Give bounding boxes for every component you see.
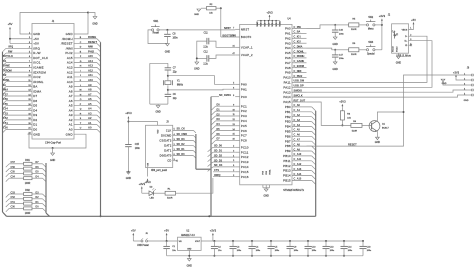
svg-text:PC16: PC16 xyxy=(241,175,249,179)
svg-text:C_A7: C_A7 xyxy=(294,139,301,142)
svg-text:PC5: PC5 xyxy=(241,124,247,128)
svg-text:+3V3: +3V3 xyxy=(144,180,151,184)
svg-text:C64-Cap-Port: C64-Cap-Port xyxy=(45,140,61,144)
svg-text:PB7: PB7 xyxy=(285,139,291,143)
svg-text:C50: C50 xyxy=(11,206,16,209)
svg-text:100n: 100n xyxy=(348,250,353,252)
svg-text:C4: C4 xyxy=(256,246,260,248)
svg-text:510R: 510R xyxy=(352,130,358,132)
svg-text:C54: C54 xyxy=(11,176,16,179)
svg-text:A2: A2 xyxy=(88,116,92,120)
svg-text:C_IO1: C_IO1 xyxy=(294,36,302,39)
svg-text:100R: 100R xyxy=(25,213,31,215)
svg-text:PC0: PC0 xyxy=(241,95,247,99)
svg-text:100n: 100n xyxy=(339,33,345,35)
svg-text:VDD: VDD xyxy=(261,22,263,27)
svg-text:ROML: ROML xyxy=(2,78,10,82)
svg-text:GAME: GAME xyxy=(2,64,10,68)
svg-text:R1: R1 xyxy=(168,189,172,191)
svg-text:C_ROMH: C_ROMH xyxy=(294,55,305,58)
svg-text:BC817: BC817 xyxy=(382,128,389,130)
svg-text:+5V: +5V xyxy=(8,22,13,26)
svg-text:100n: 100n xyxy=(367,250,372,252)
svg-text:IRQ: IRQ xyxy=(9,45,14,49)
svg-text:PB14: PB14 xyxy=(283,174,291,178)
svg-text:D0: D0 xyxy=(33,128,37,132)
svg-text:PA5: PA5 xyxy=(285,51,291,55)
svg-text:C14: C14 xyxy=(348,246,353,248)
svg-text:C51: C51 xyxy=(11,201,16,204)
svg-text:C_A11: C_A11 xyxy=(294,158,302,161)
svg-text:A7: A7 xyxy=(88,92,92,96)
svg-text:PB9: PB9 xyxy=(285,149,291,153)
svg-text:VBAT: VBAT xyxy=(256,21,259,27)
svg-text:PC15: PC15 xyxy=(241,170,249,174)
svg-text:A15: A15 xyxy=(67,56,73,60)
svg-text:PC12: PC12 xyxy=(241,155,249,159)
svg-text:VDD: VDD xyxy=(265,22,267,27)
svg-text:C2: C2 xyxy=(218,246,222,248)
svg-text:GND: GND xyxy=(33,32,40,36)
svg-text:GND: GND xyxy=(194,14,199,16)
svg-text:CLK: CLK xyxy=(166,128,172,132)
svg-text:GND: GND xyxy=(155,111,161,114)
svg-text:C52: C52 xyxy=(11,196,16,199)
svg-text:R3: R3 xyxy=(347,113,351,115)
svg-text:C8: C8 xyxy=(173,34,177,36)
svg-text:PB11: PB11 xyxy=(283,159,291,163)
svg-text:D0/DAT0: D0/DAT0 xyxy=(160,154,172,158)
svg-text:SW1: SW1 xyxy=(153,20,159,23)
svg-text:DOTCLK: DOTCLK xyxy=(2,54,13,58)
svg-text:C56: C56 xyxy=(11,166,16,169)
svg-text:/I/O2: /I/O2 xyxy=(33,75,41,79)
svg-text:ROMH: ROMH xyxy=(88,35,96,39)
svg-text:A13: A13 xyxy=(88,64,93,68)
svg-text:100n: 100n xyxy=(173,38,179,40)
svg-text:PB12: PB12 xyxy=(283,164,291,168)
svg-text:100n: 100n xyxy=(256,250,261,252)
svg-text:/EXROM: /EXROM xyxy=(33,70,46,74)
svg-text:A12: A12 xyxy=(88,68,93,72)
svg-text:A1: A1 xyxy=(69,123,73,127)
svg-text:U4: U4 xyxy=(287,17,291,20)
svg-text:A9: A9 xyxy=(69,85,73,89)
svg-text:+3V3: +3V3 xyxy=(266,10,273,14)
svg-text:Q1: Q1 xyxy=(382,123,386,125)
svg-text:PA11: PA11 xyxy=(284,81,291,85)
svg-text:PH0: PH0 xyxy=(241,82,247,86)
svg-text:100n: 100n xyxy=(135,148,141,150)
svg-text:SW3: SW3 xyxy=(368,42,374,44)
svg-text:C_A0: C_A0 xyxy=(294,104,301,107)
svg-text:10k: 10k xyxy=(347,117,351,119)
svg-text:C53: C53 xyxy=(11,191,16,194)
svg-text:+5V: +5V xyxy=(33,42,39,46)
svg-text:GND: GND xyxy=(333,68,339,71)
svg-text:PA14: PA14 xyxy=(283,95,291,99)
svg-text:SWCLK: SWCLK xyxy=(294,94,303,97)
svg-text:J2: J2 xyxy=(388,15,391,17)
svg-text:PB5: PB5 xyxy=(285,130,291,134)
svg-text:PC3: PC3 xyxy=(241,114,247,118)
svg-text:C18: C18 xyxy=(367,246,372,248)
svg-text:A0: A0 xyxy=(69,128,73,132)
svg-text:PHI2: PHI2 xyxy=(65,51,73,55)
svg-text:C_PHI2: C_PHI2 xyxy=(294,75,303,78)
svg-text:A7: A7 xyxy=(69,94,73,98)
svg-text:+3V3: +3V3 xyxy=(139,182,146,186)
svg-text:C_EXRM: C_EXRM xyxy=(294,65,304,68)
svg-text:/IRQ: /IRQ xyxy=(33,46,40,50)
svg-text:DOT_CLK: DOT_CLK xyxy=(33,56,48,60)
svg-text:C57: C57 xyxy=(3,92,8,96)
svg-text:PB13: PB13 xyxy=(283,169,291,173)
svg-text:Reset: Reset xyxy=(153,32,160,35)
svg-text:C57: C57 xyxy=(11,161,16,164)
svg-text:VCAP_2: VCAP_2 xyxy=(241,53,253,57)
svg-text:A3: A3 xyxy=(69,113,73,117)
svg-text:/ROMH: /ROMH xyxy=(62,37,73,41)
svg-text:510R: 510R xyxy=(351,54,357,56)
svg-text:2.2u: 2.2u xyxy=(203,46,208,48)
svg-text:PH1: PH1 xyxy=(241,87,247,91)
svg-text:C_A3: C_A3 xyxy=(294,119,301,122)
svg-text:PA1: PA1 xyxy=(285,32,291,36)
svg-text:C_A8: C_A8 xyxy=(294,143,301,146)
svg-text:GND: GND xyxy=(187,248,192,250)
svg-text:10k: 10k xyxy=(209,13,213,15)
svg-text:C_A10: C_A10 xyxy=(294,153,302,156)
svg-text:EXROM: EXROM xyxy=(2,68,12,72)
svg-text:C55: C55 xyxy=(11,171,16,174)
svg-text:510R: 510R xyxy=(167,198,173,200)
svg-text:+3V3: +3V3 xyxy=(453,70,460,74)
svg-text:GND: GND xyxy=(464,100,469,102)
svg-text:C_GAME: C_GAME xyxy=(294,60,305,63)
svg-text:RESET: RESET xyxy=(88,40,97,44)
svg-text:USB Power: USB Power xyxy=(137,244,149,247)
svg-text:A10: A10 xyxy=(88,78,93,82)
svg-text:D-: D- xyxy=(405,36,408,38)
svg-text:GND: GND xyxy=(396,62,402,65)
svg-text:A11: A11 xyxy=(88,73,93,77)
svg-text:A14: A14 xyxy=(67,61,73,65)
svg-text:C_BA: C_BA xyxy=(294,31,301,34)
svg-text:D2: D2 xyxy=(150,187,154,189)
svg-text:R6: R6 xyxy=(352,43,356,45)
svg-text:GND: GND xyxy=(187,265,193,268)
svg-text:J3: J3 xyxy=(166,122,169,124)
svg-text:PB1: PB1 xyxy=(285,110,291,114)
svg-text:A0: A0 xyxy=(88,126,92,130)
svg-text:PA0: PA0 xyxy=(285,27,291,31)
svg-text:GND: GND xyxy=(33,132,40,136)
svg-text:PHI2: PHI2 xyxy=(88,49,94,53)
svg-text:SWDIO: SWDIO xyxy=(294,90,303,93)
svg-text:SD_CMD1: SD_CMD1 xyxy=(219,94,232,97)
svg-text:NMI: NMI xyxy=(88,45,93,49)
svg-text:M: M xyxy=(80,90,82,92)
svg-text:R5: R5 xyxy=(352,18,356,20)
svg-text:A9: A9 xyxy=(88,83,92,87)
svg-text:GND: GND xyxy=(194,67,200,70)
svg-text:10u: 10u xyxy=(218,250,222,252)
svg-text:RW: RW xyxy=(8,49,13,53)
svg-text:C_A5: C_A5 xyxy=(294,129,301,132)
svg-text:Special: Special xyxy=(367,53,375,55)
svg-text:VDD: VDD xyxy=(268,22,270,27)
svg-text:C5: C5 xyxy=(275,246,279,248)
svg-text:C53: C53 xyxy=(3,111,8,115)
svg-text:A13: A13 xyxy=(67,65,73,69)
svg-text:8MHz: 8MHz xyxy=(177,85,184,87)
svg-text:A8: A8 xyxy=(69,89,73,93)
svg-text:BA: BA xyxy=(33,85,37,89)
svg-text:VDD: VDD xyxy=(276,22,278,27)
svg-text:C55: C55 xyxy=(3,102,8,106)
svg-text:CS/DAT3: CS/DAT3 xyxy=(159,139,172,143)
svg-text:RESET: RESET xyxy=(348,143,357,147)
svg-text:A6: A6 xyxy=(88,97,92,101)
svg-text:C_A4: C_A4 xyxy=(294,124,301,127)
svg-text:J: J xyxy=(80,75,81,77)
svg-text:C_A9: C_A9 xyxy=(294,148,301,151)
svg-text:PC6: PC6 xyxy=(241,129,247,133)
svg-text:D7: D7 xyxy=(33,94,37,98)
svg-text:BOOT0: BOOT0 xyxy=(241,35,252,39)
svg-text:PB8: PB8 xyxy=(285,144,291,148)
svg-text:GND: GND xyxy=(333,43,339,46)
svg-text:PC1: PC1 xyxy=(241,104,247,108)
svg-text:PC7: PC7 xyxy=(241,134,247,138)
svg-text:/ROML: /ROML xyxy=(33,80,44,84)
svg-text:DMA: DMA xyxy=(2,88,8,92)
svg-text:C_NMI: C_NMI xyxy=(294,70,302,73)
svg-text:GND: GND xyxy=(50,159,56,162)
svg-text:A4: A4 xyxy=(88,107,92,111)
svg-text:SD_D2: SD_D2 xyxy=(177,143,186,146)
svg-text:+5V: +5V xyxy=(33,37,39,41)
svg-text:C6: C6 xyxy=(173,94,177,96)
svg-text:A12: A12 xyxy=(67,70,73,74)
svg-text:C17: C17 xyxy=(339,54,344,56)
svg-text:D6: D6 xyxy=(33,99,37,103)
svg-text:510R: 510R xyxy=(351,29,357,31)
svg-text:D5: D5 xyxy=(33,104,37,108)
svg-text:/GAME: /GAME xyxy=(33,65,44,69)
svg-text:C7: C7 xyxy=(173,68,177,70)
svg-text:C13: C13 xyxy=(330,246,335,248)
svg-text:C3: C3 xyxy=(237,246,241,248)
svg-text:R2: R2 xyxy=(210,4,214,6)
svg-text:STM32F405RGTx: STM32F405RGTx xyxy=(283,188,305,192)
svg-text:+3V3: +3V3 xyxy=(210,229,217,233)
svg-text:SW2: SW2 xyxy=(368,17,374,19)
svg-text:GND: GND xyxy=(66,132,73,136)
svg-text:100n: 100n xyxy=(275,250,280,252)
svg-text:4Bit_port_push: 4Bit_port_push xyxy=(151,169,168,172)
svg-text:SD_D1: SD_D1 xyxy=(177,148,186,151)
svg-text:GND: GND xyxy=(442,83,447,85)
svg-text:PB3: PB3 xyxy=(285,120,291,124)
svg-text:LED: LED xyxy=(150,198,155,200)
svg-text:DAT1: DAT1 xyxy=(164,149,172,153)
svg-text:PA7: PA7 xyxy=(285,61,291,65)
svg-text:PB4: PB4 xyxy=(285,125,291,129)
svg-text:100n: 100n xyxy=(294,250,299,252)
svg-text:C10: C10 xyxy=(312,246,317,248)
svg-text:R-/W: R-/W xyxy=(33,51,41,55)
svg-text:SD_D3: SD_D3 xyxy=(177,138,186,141)
svg-text:PA15: PA15 xyxy=(283,100,291,104)
svg-text:SD_D0: SD_D0 xyxy=(177,153,186,156)
svg-text:Shield: Shield xyxy=(396,47,398,52)
svg-text:PA3: PA3 xyxy=(285,41,291,45)
svg-text:J1: J1 xyxy=(52,20,55,23)
svg-text:PC11: PC11 xyxy=(241,150,249,154)
svg-text:C12: C12 xyxy=(203,51,208,53)
svg-text:A15: A15 xyxy=(88,54,93,58)
svg-text:+3V3: +3V3 xyxy=(125,111,132,115)
svg-text:C51: C51 xyxy=(3,121,8,125)
svg-text:C16: C16 xyxy=(339,30,344,32)
svg-text:U2: U2 xyxy=(186,231,190,233)
svg-text:100R: 100R xyxy=(25,183,31,185)
svg-text:PB6: PB6 xyxy=(285,134,291,138)
svg-text:+3V3: +3V3 xyxy=(379,14,386,18)
svg-text:C54: C54 xyxy=(3,107,8,111)
svg-text:A10: A10 xyxy=(67,80,73,84)
svg-text:J5: J5 xyxy=(145,233,148,235)
svg-text:C9: C9 xyxy=(294,246,298,248)
svg-text:10u: 10u xyxy=(172,250,176,252)
svg-text:VBUS: VBUS xyxy=(402,29,408,31)
svg-text:RST_OUT: RST_OUT xyxy=(294,99,306,102)
svg-text:C_A14: C_A14 xyxy=(294,173,302,176)
svg-text:RN2: RN2 xyxy=(25,190,30,192)
svg-text:R4: R4 xyxy=(353,121,357,123)
svg-text:/RESET: /RESET xyxy=(61,42,73,46)
svg-text:/I/O1: /I/O1 xyxy=(33,61,41,65)
svg-text:PC10: PC10 xyxy=(241,145,249,149)
svg-text:PA6: PA6 xyxy=(285,56,291,60)
svg-text:GND: GND xyxy=(92,23,98,26)
svg-text:PB15: PB15 xyxy=(283,179,291,183)
svg-text:PC13: PC13 xyxy=(241,160,249,164)
svg-text:C50: C50 xyxy=(3,126,8,130)
svg-text:C_A1: C_A1 xyxy=(294,109,301,112)
svg-text:+5V: +5V xyxy=(164,229,169,233)
svg-text:PA4: PA4 xyxy=(285,46,291,50)
svg-text:PC2: PC2 xyxy=(241,109,247,113)
svg-text:PC14: PC14 xyxy=(241,165,249,169)
svg-text:8: 8 xyxy=(233,95,234,97)
svg-text:A8: A8 xyxy=(88,88,92,92)
svg-text:Menu: Menu xyxy=(368,29,374,31)
svg-text:SD_CMD: SD_CMD xyxy=(177,133,188,136)
svg-text:J6: J6 xyxy=(467,68,470,70)
svg-text:NRST: NRST xyxy=(241,27,250,31)
svg-text:C_A13: C_A13 xyxy=(294,168,302,171)
svg-text:A11: A11 xyxy=(67,75,73,79)
svg-text:Y1: Y1 xyxy=(177,80,181,82)
svg-text:/DMA: /DMA xyxy=(33,89,41,93)
svg-text:A3: A3 xyxy=(88,111,92,115)
svg-text:GND: GND xyxy=(165,51,171,54)
svg-text:AMS1117-3.3: AMS1117-3.3 xyxy=(181,234,195,237)
svg-text:D2: D2 xyxy=(33,118,37,122)
svg-text:D1: D1 xyxy=(33,123,37,127)
svg-text:C1: C1 xyxy=(172,246,176,248)
svg-text:C_A2: C_A2 xyxy=(294,114,301,117)
svg-text:PB0: PB0 xyxy=(285,105,291,109)
svg-text:VDDA: VDDA xyxy=(279,21,282,27)
svg-text:A1: A1 xyxy=(88,121,92,125)
svg-text:RN1: RN1 xyxy=(25,160,30,162)
svg-text:A4: A4 xyxy=(69,108,73,112)
svg-text:Shield: Shield xyxy=(392,46,394,52)
svg-text:GND: GND xyxy=(66,32,73,36)
svg-text:USB_DM: USB_DM xyxy=(294,80,305,83)
svg-text:A2: A2 xyxy=(69,118,73,122)
svg-text:CD: CD xyxy=(167,159,171,163)
svg-text:PC8: PC8 xyxy=(241,139,247,143)
svg-text:GND: GND xyxy=(264,195,270,198)
svg-text:C_ROML: C_ROML xyxy=(294,50,305,53)
svg-text:A14: A14 xyxy=(88,59,93,63)
svg-text:100n: 100n xyxy=(330,250,335,252)
svg-text:22p: 22p xyxy=(173,98,178,100)
svg-text:VDD: VDD xyxy=(272,22,274,27)
svg-text:100n: 100n xyxy=(237,250,242,252)
svg-text:PA12: PA12 xyxy=(283,85,291,89)
svg-text:PA2: PA2 xyxy=(285,36,291,40)
svg-text:C_A6: C_A6 xyxy=(294,134,301,137)
svg-text:C15: C15 xyxy=(135,144,140,146)
svg-text:/NMI: /NMI xyxy=(66,46,73,50)
svg-text:GND: GND xyxy=(375,141,381,144)
svg-text:C56: C56 xyxy=(3,97,8,101)
svg-text:+3V3: +3V3 xyxy=(339,100,346,104)
svg-text:VSSA: VSSA xyxy=(268,169,271,175)
svg-text:PB10: PB10 xyxy=(283,154,291,158)
svg-text:D3: D3 xyxy=(33,113,37,117)
svg-text:+5V: +5V xyxy=(131,229,136,233)
svg-text:D4: D4 xyxy=(33,108,37,112)
svg-text:C_A12: C_A12 xyxy=(294,163,302,166)
svg-text:PA10: PA10 xyxy=(283,76,291,80)
svg-text:GND: GND xyxy=(126,177,132,180)
svg-text:PC4: PC4 xyxy=(241,119,247,123)
svg-text:A5: A5 xyxy=(88,102,92,106)
svg-text:C_DMA: C_DMA xyxy=(294,45,303,48)
svg-text:22p: 22p xyxy=(173,72,178,74)
svg-text:USB_DP: USB_DP xyxy=(294,85,304,88)
svg-text:2.2u: 2.2u xyxy=(203,64,208,66)
svg-text:PA9: PA9 xyxy=(285,71,291,75)
svg-text:100n: 100n xyxy=(312,250,317,252)
svg-text:C11: C11 xyxy=(204,32,209,34)
svg-text:PB2: PB2 xyxy=(285,115,291,119)
svg-text:C_A15: C_A15 xyxy=(294,178,302,181)
svg-text:+5V: +5V xyxy=(411,18,416,22)
svg-text:A5: A5 xyxy=(69,104,73,108)
svg-text:C_IO2: C_IO2 xyxy=(294,41,302,44)
svg-text:DAT2: DAT2 xyxy=(164,144,172,148)
svg-text:7: 7 xyxy=(233,28,234,30)
svg-text:SD_CK: SD_CK xyxy=(177,128,186,131)
